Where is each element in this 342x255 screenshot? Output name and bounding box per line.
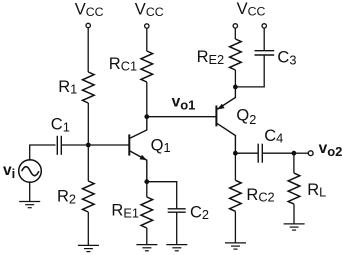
- svg-text:R2: R2: [57, 188, 76, 207]
- wire VCC to C3: [263, 28, 265, 51]
- svg-text:C2: C2: [190, 204, 209, 223]
- transistor Q2: [216, 87, 235, 153]
- wire collector node to RC2: [234, 153, 236, 180]
- transistor Q1: [129, 117, 147, 182]
- wire vi top lead: [30, 145, 56, 161]
- terminal vo2: [308, 151, 313, 156]
- wire RL to ground: [293, 204, 295, 224]
- ground (below RE1): [136, 245, 157, 251]
- VCC terminal (C3): [262, 24, 266, 28]
- wire emitter node to C2: [147, 182, 177, 209]
- resistor RE2: [230, 39, 242, 70]
- capacitor C3: [255, 51, 275, 55]
- svg-text:RC1: RC1: [109, 55, 137, 74]
- VCC terminal (RC1): [145, 24, 149, 28]
- capacitor C2: [168, 209, 186, 212]
- wire output node to RL: [293, 153, 295, 173]
- wire RC2 to ground: [234, 211, 236, 243]
- svg-text:R1: R1: [58, 78, 77, 97]
- wire C2 to ground: [176, 212, 178, 244]
- resistor RL: [288, 173, 300, 204]
- wire VCC to RE2: [234, 28, 236, 39]
- resistor RC1: [141, 51, 153, 82]
- svg-text:RE1: RE1: [111, 202, 139, 221]
- node RE2/C3/Q2 emitter: [233, 85, 238, 90]
- wire output node to vo2 terminal: [294, 152, 308, 154]
- wire C4 to output node: [262, 152, 294, 154]
- voltage source vi: [19, 160, 42, 183]
- wire RE1 to ground: [146, 228, 148, 245]
- svg-text:C4: C4: [264, 127, 283, 146]
- node output: [292, 151, 297, 156]
- svg-text:vo2: vo2: [319, 140, 342, 159]
- node vo1: [144, 114, 149, 119]
- wire node to R2: [87, 145, 89, 181]
- resistor RE1: [141, 197, 153, 228]
- node (base divider): [86, 143, 91, 148]
- svg-text:C1: C1: [51, 116, 70, 135]
- svg-text:RC2: RC2: [246, 186, 274, 205]
- ground (below R2): [78, 245, 99, 251]
- node Q2 collector: [233, 151, 238, 156]
- ground (below vi): [19, 202, 40, 208]
- VCC terminal (RE2): [233, 24, 237, 28]
- wire C3 to node: [235, 55, 264, 87]
- wire node to Q1 base: [88, 144, 129, 146]
- ground (below C2): [166, 245, 187, 251]
- wire VCC to R1: [87, 28, 89, 72]
- wire C1 to base node: [61, 144, 88, 146]
- svg-text:RE2: RE2: [197, 48, 225, 67]
- wire R2 to ground: [87, 212, 89, 245]
- node Q1 emitter: [144, 179, 149, 184]
- resistor RC2: [230, 180, 242, 211]
- wire RE2 to node: [234, 70, 236, 87]
- ground (below RL): [284, 224, 305, 230]
- wire RC1 to node vo1: [146, 82, 148, 117]
- wire R1 to node: [87, 103, 89, 145]
- wire vi bottom lead: [29, 181, 31, 201]
- resistor R2: [83, 181, 95, 212]
- wire vo1 to Q2 base: [147, 116, 217, 118]
- wire emitter node to RE1: [146, 182, 148, 197]
- VCC terminal (R1): [86, 23, 90, 27]
- svg-text:Q1: Q1: [151, 136, 171, 155]
- svg-text:C3: C3: [277, 49, 296, 68]
- ground (below RC2): [225, 243, 246, 249]
- capacitor C1: [57, 136, 61, 155]
- resistor R1: [83, 72, 95, 103]
- wire collector node to C4: [235, 152, 258, 154]
- svg-text:RL: RL: [307, 181, 326, 200]
- capacitor C4: [258, 144, 262, 163]
- wire VCC to RC1: [146, 28, 148, 51]
